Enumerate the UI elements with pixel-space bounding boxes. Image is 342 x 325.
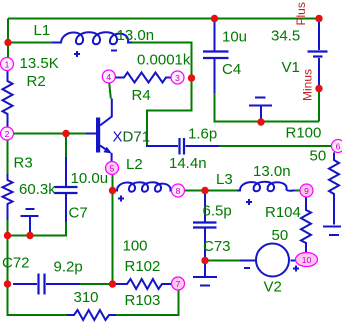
svg-text:R102: R102 [125, 258, 161, 275]
junction node5/L2 [109, 187, 116, 194]
svg-text:R3: R3 [14, 155, 33, 172]
wire top rail [8, 18, 319, 20]
source V2 [240, 260, 257, 262]
wire 1.6p to node6 [219, 145, 331, 147]
svg-text:1.6p: 1.6p [188, 126, 217, 143]
wire L1 right to corner down to node 3 dot and 1.6p corner [132, 43, 192, 147]
junction C72 left [4, 280, 11, 287]
svg-text:2: 2 [5, 129, 10, 139]
junction V1 top [315, 15, 322, 22]
L1 plus mark [74, 51, 80, 57]
svg-text:34.5: 34.5 [271, 28, 300, 45]
wire L3 right lead to node9 [295, 190, 300, 192]
svg-text:C4: C4 [222, 61, 241, 78]
svg-text:50: 50 [310, 148, 327, 165]
inductor L1 [52, 32, 132, 44]
resistor R4 [116, 73, 172, 83]
junction base/C7 [62, 130, 69, 137]
svg-text:9.2p: 9.2p [54, 259, 83, 276]
junction ground G1 [26, 232, 33, 239]
capacitor C73 [204, 192, 206, 222]
svg-text:L2: L2 [126, 156, 143, 173]
svg-text:0.0001k: 0.0001k [137, 52, 191, 69]
node 8 [172, 184, 185, 197]
wire node5 stem [112, 175, 114, 191]
wire left rail upper [7, 19, 9, 59]
svg-text:L1: L1 [34, 22, 51, 39]
wire R103 right to node7 stem [116, 290, 179, 315]
svg-text:13.5K: 13.5K [20, 55, 59, 72]
svg-text:50: 50 [272, 227, 289, 244]
junction C4 top [211, 15, 218, 22]
wire node5 junction down to C72 row [112, 191, 114, 285]
battery V1 [318, 19, 320, 50]
svg-text:C7: C7 [69, 205, 88, 222]
svg-text:R4: R4 [132, 87, 151, 104]
wire from junction to L1 [8, 42, 57, 44]
junction C72/R102 [109, 280, 116, 287]
node 6 [332, 140, 342, 153]
svg-text:10.0u: 10.0u [71, 170, 109, 187]
V2 plus mark [293, 266, 299, 272]
svg-text:6: 6 [336, 142, 341, 152]
wire C7 stem top green [65, 134, 67, 158]
resistor R3 [3, 174, 13, 220]
capacitor C72 [13, 283, 37, 285]
wire bottom-left horizontal to C7 stem [8, 222, 67, 236]
node 9 [300, 184, 313, 197]
wire C72 right to junction [80, 283, 113, 285]
svg-text:6.5p: 6.5p [203, 203, 232, 220]
svg-text:R103: R103 [125, 292, 161, 309]
node 4 [102, 70, 115, 83]
svg-text:Minus: Minus [301, 69, 315, 101]
junction C73 bottom [201, 257, 208, 264]
wire V1 minus to bottom rail [318, 89, 320, 122]
svg-text:14.4n: 14.4n [169, 155, 207, 172]
svg-text:C72: C72 [2, 255, 30, 272]
svg-text:L3: L3 [216, 171, 233, 188]
junction node3 right [188, 74, 195, 81]
wire C73 junction to V2 [205, 260, 240, 262]
svg-text:V2: V2 [264, 279, 282, 296]
capacitor C71 value 1.6p [146, 145, 178, 147]
svg-text:1: 1 [5, 60, 10, 70]
svg-text:R100: R100 [286, 125, 322, 142]
capacitor C4 [214, 19, 216, 51]
node 3 [171, 71, 184, 84]
junction R3 bottom [4, 232, 11, 239]
node 5 [106, 162, 119, 175]
svg-text:4: 4 [106, 72, 111, 82]
junction V1 minus [315, 85, 322, 92]
junction L3/C73 [201, 187, 208, 194]
node 2 [1, 127, 14, 140]
ground under R100 [323, 227, 341, 236]
ground on C4 bottom rail [249, 98, 272, 122]
wire node8 to L3 junction [185, 190, 238, 192]
V2 minus mark [244, 267, 250, 269]
svg-text:3: 3 [175, 73, 180, 83]
svg-text:5: 5 [110, 164, 115, 174]
wire R3 bottom to bottom-left node [7, 220, 9, 236]
svg-text:7: 7 [176, 279, 181, 289]
svg-text:13.0n: 13.0n [117, 27, 155, 44]
ground under C7 area [21, 209, 39, 236]
resistor R104 [301, 198, 311, 254]
svg-text:100: 100 [123, 238, 148, 255]
inductor L2 [114, 182, 172, 191]
svg-text:310: 310 [74, 289, 99, 306]
wire left down to bottom rail and to R103 [8, 284, 68, 315]
resistor R2 [3, 71, 13, 128]
L1 minus mark [111, 50, 117, 52]
svg-text:R2: R2 [27, 73, 46, 90]
capacitor C7 [65, 157, 67, 186]
wire node2 down to R3 [7, 140, 9, 174]
svg-text:V1: V1 [282, 59, 300, 76]
svg-text:9: 9 [304, 186, 309, 196]
node 10 [296, 253, 318, 267]
svg-text:8: 8 [176, 186, 181, 196]
svg-text:Plus: Plus [294, 2, 308, 25]
node 1 [1, 58, 14, 71]
svg-text:10u: 10u [222, 29, 247, 46]
svg-text:R104: R104 [265, 204, 301, 221]
L2 plus mark [118, 196, 124, 202]
wire node2 to transistor base [14, 133, 87, 135]
node 7 [172, 277, 185, 290]
svg-text:13.0n: 13.0n [253, 163, 291, 180]
svg-text:XD71: XD71 [113, 129, 151, 146]
svg-text:C73: C73 [203, 238, 231, 255]
wire C4 bottom rail [215, 93, 320, 122]
transistor Q1 XD71 [96, 118, 100, 153]
resistor R100 [329, 153, 339, 225]
L3 plus mark [246, 199, 252, 205]
wire left rail lower [7, 236, 9, 285]
resistor R102 [116, 279, 171, 289]
resistor R103 [67, 310, 116, 320]
node A top-left junction [4, 39, 11, 46]
ground under C73 [193, 261, 217, 286]
svg-text:60.3k: 60.3k [19, 181, 56, 198]
inductor L3 [237, 182, 295, 191]
junction ground rail [257, 118, 264, 125]
svg-text:10: 10 [302, 255, 312, 265]
